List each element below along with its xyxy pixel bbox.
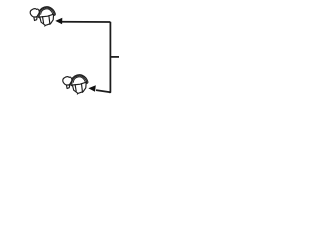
wire: right vertical bracket line [109, 22, 110, 92]
arrowhead A2 (bottom) [88, 85, 95, 92]
wire: bottom leader line [96, 90, 110, 92]
wire: middle tick [110, 56, 119, 58]
clip C2 (bottom fastener) [63, 75, 88, 94]
arrowhead A1 (top) [55, 18, 62, 25]
clip C1 (top fastener) [30, 7, 55, 26]
wire: top leader line [60, 21, 110, 23]
